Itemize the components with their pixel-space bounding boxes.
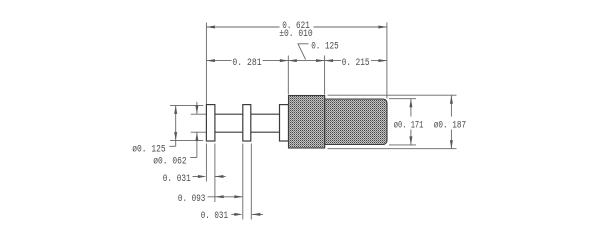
flange F1	[206, 105, 215, 141]
arrow left 0.621	[206, 26, 215, 29]
svg-text:ø0. 187: ø0. 187	[434, 119, 466, 131]
shoulder collar	[280, 105, 289, 141]
arrow left-to 0.031a	[215, 175, 224, 178]
arrow right 0.621	[378, 26, 387, 29]
arrow left-to 0.031b	[252, 213, 260, 216]
arrow down dia0.125	[174, 132, 177, 141]
arrow up dia0.187	[450, 95, 453, 104]
dimension 0.093	[208, 196, 243, 198]
svg-text:0. 031: 0. 031	[163, 173, 191, 185]
arrow left 0.281	[206, 59, 215, 62]
svg-text:ø0. 171: ø0. 171	[394, 119, 424, 131]
dimension dia 0.187 extension lines	[328, 95, 457, 149]
wire: extension line part right end (top group)	[386, 23, 388, 99]
arrow left 0.215	[325, 59, 334, 62]
knurl section small (0.171)	[325, 99, 387, 145]
leader 0.125	[298, 44, 309, 60]
arrow left 0.125	[288, 59, 297, 62]
dimension row 0.281 / 0.125 / 0.215	[206, 60, 387, 62]
arrow up-to-shaft dia0.062	[195, 132, 198, 141]
svg-text:0. 215: 0. 215	[342, 57, 370, 69]
svg-text:±0. 010: ±0. 010	[279, 28, 313, 40]
svg-text:0. 031: 0. 031	[201, 210, 228, 222]
arrow right 0.125	[316, 59, 325, 62]
arrow left 0.093	[215, 195, 224, 198]
dimension dia 0.125: extension lines	[169, 105, 203, 146]
svg-text:0. 281: 0. 281	[232, 57, 261, 69]
wire: extension line flange1 left (top group)	[205, 23, 207, 105]
arrow up dia0.125	[174, 105, 177, 114]
extension lines bottom group	[206, 144, 251, 220]
arrow right 0.093	[234, 195, 243, 198]
arrow down dia0.171	[409, 136, 412, 145]
dimension 0.621 line	[206, 26, 387, 28]
arrow right 0.281	[280, 59, 289, 62]
dimension dia 0.062: extension ticks	[190, 102, 206, 158]
svg-text:0. 125: 0. 125	[311, 40, 339, 52]
arrow up dia0.171	[409, 99, 412, 108]
dimension 0.031 second	[231, 213, 263, 215]
arrow right 0.215	[378, 59, 387, 62]
flange F2	[243, 105, 251, 141]
arrow down-to-shaft dia0.062	[195, 106, 198, 115]
knurl section large (0.187)	[289, 96, 325, 149]
wire: extension line knurl step	[324, 56, 326, 95]
svg-text:ø0. 125: ø0. 125	[132, 144, 165, 156]
arrow right-to 0.031b	[234, 213, 243, 216]
shaft segment between flanges	[215, 114, 280, 132]
arrow down dia0.187	[450, 140, 453, 149]
wire: extension line knurl start	[287, 56, 289, 95]
svg-text:0. 093: 0. 093	[178, 193, 206, 205]
svg-text:ø0. 062: ø0. 062	[153, 155, 186, 167]
arrow right-to 0.031a	[198, 175, 207, 178]
dimension dia 0.171 extension lines	[389, 99, 416, 145]
dimension 0.031 first	[193, 176, 226, 178]
